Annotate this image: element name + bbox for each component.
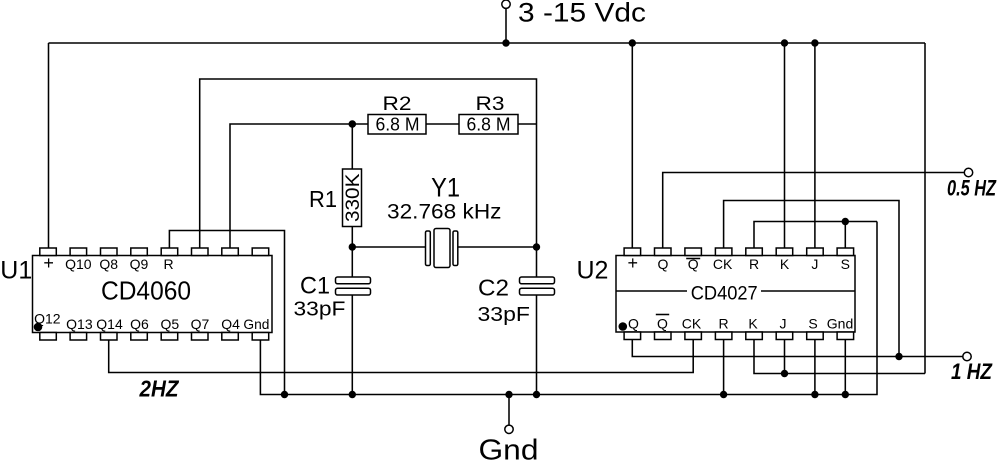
U2 top pin CK xyxy=(715,248,732,256)
terminal: 0.5 HZ open circle xyxy=(964,168,972,176)
wire: R2 to R3 xyxy=(426,123,459,125)
terminal: V+ open circle xyxy=(502,0,510,8)
IC U2 body CD4027 xyxy=(616,256,855,333)
svg-text:R1: R1 xyxy=(309,186,337,212)
wire: R1 top lead xyxy=(351,124,353,169)
wire: U2 bottom Gnd to ground bus xyxy=(844,340,846,395)
capacitor C2 bottom plate xyxy=(520,288,555,295)
wire: U2 bottom K to J to supply riser xyxy=(754,340,925,374)
U1 bottom pin Q7 xyxy=(192,333,209,341)
svg-text:Q: Q xyxy=(658,256,669,272)
svg-text:6.8 M: 6.8 M xyxy=(467,115,511,135)
wire: crystal right lead xyxy=(458,246,537,248)
svg-text:6.8 M: 6.8 M xyxy=(376,115,420,135)
wire: R1 bottom lead to crystal left node xyxy=(351,227,353,248)
svg-text:CK: CK xyxy=(713,256,733,272)
overbar: U2 top Qbar xyxy=(686,258,700,260)
capacitor C2 top plate xyxy=(520,277,555,284)
svg-text:R: R xyxy=(164,256,174,272)
wire: ground bus from U1 Gnd pin across to right riser xyxy=(260,222,877,395)
svg-text:CD4060: CD4060 xyxy=(101,276,191,306)
svg-text:K: K xyxy=(748,316,758,332)
resistor R3 body xyxy=(459,115,518,135)
junction dot: supply terminal on rail xyxy=(502,39,509,46)
svg-text:3 -15 Vdc: 3 -15 Vdc xyxy=(518,0,646,28)
wire: C2 top lead xyxy=(536,247,538,277)
svg-text:+: + xyxy=(627,253,638,273)
junction dot: node R1 top / R2 left xyxy=(349,120,357,128)
wire: C1 top lead xyxy=(351,247,353,277)
U2 top pin + xyxy=(624,248,641,256)
wire: U2 top CK feedback line to 1HZ node xyxy=(724,201,899,357)
junction dot: Gnd terminal on bus xyxy=(505,391,512,398)
svg-text:K: K xyxy=(780,256,790,272)
wire: V+ supply rail top bus xyxy=(49,42,926,44)
svg-text:Gnd: Gnd xyxy=(827,316,854,332)
junction dot: reset drop on ground bus xyxy=(281,391,288,398)
crystal Y1 body xyxy=(434,229,450,268)
svg-text:Gnd: Gnd xyxy=(479,435,539,460)
svg-text:2HZ: 2HZ xyxy=(139,376,180,402)
wire: supply rail down to U1 pin + xyxy=(48,43,50,248)
wire: crystal left lead xyxy=(352,246,425,248)
junction dot: crystal right node xyxy=(533,243,540,250)
svg-text:Q8: Q8 xyxy=(99,256,118,272)
resistor R1 body xyxy=(343,169,362,227)
U2 top pin S xyxy=(837,248,854,256)
U1 top pin 16 (+) xyxy=(40,248,57,256)
svg-text:Q13: Q13 xyxy=(66,316,93,332)
svg-text:33pF: 33pF xyxy=(294,299,346,321)
svg-text:0.5 HZ: 0.5 HZ xyxy=(947,176,997,201)
U2 bottom pin CK xyxy=(685,332,702,340)
junction dot: feedback on 1 HZ line xyxy=(895,353,902,360)
junction dot: C2 on ground bus xyxy=(533,391,540,398)
U1 top pin Q9 xyxy=(131,248,148,256)
wire: supply rail right side down to bottom J/K line xyxy=(924,43,926,374)
junction dot: U2 + branch xyxy=(629,39,636,46)
terminal: 1 HZ open circle xyxy=(963,352,971,360)
wire: 2HZ net from U1 Q14 to U2 bottom CK xyxy=(109,340,694,373)
wire: Gnd terminal stub xyxy=(508,395,510,426)
svg-text:32.768 kHz: 32.768 kHz xyxy=(387,201,502,224)
U2 bottom pin S xyxy=(807,332,824,340)
svg-text:Q10: Q10 xyxy=(65,256,92,272)
U1 bottom pin Q13 xyxy=(70,333,87,341)
svg-text:Y1: Y1 xyxy=(431,172,460,202)
U2 top pin J xyxy=(807,248,824,256)
U1 top pin nc xyxy=(252,248,269,256)
wire: supply rail down to U2 pin + xyxy=(631,43,633,248)
svg-text:Q7: Q7 xyxy=(191,316,210,332)
wire: U1 R pin reset line over to ground drop xyxy=(169,231,284,395)
crystal Y1 right plate xyxy=(453,231,458,266)
junction dot: crystal left node xyxy=(349,243,356,250)
svg-text:CK: CK xyxy=(682,316,702,332)
wire: U2 top S drop xyxy=(844,222,846,249)
svg-text:C1: C1 xyxy=(300,272,330,299)
wire: C2 bottom lead to ground bus xyxy=(536,295,538,395)
wire: supply rail down to U2 top pin J xyxy=(814,43,816,248)
svg-text:R: R xyxy=(749,256,759,272)
U2 bottom pin J xyxy=(776,332,793,340)
U1 bottom pin Q12 xyxy=(40,333,57,341)
svg-text:R3: R3 xyxy=(476,93,505,115)
svg-text:Q9: Q9 xyxy=(130,256,149,272)
resistor R2 body xyxy=(368,115,426,135)
U1 bottom pin Q5 xyxy=(161,333,178,341)
svg-text:R2: R2 xyxy=(383,93,412,115)
svg-text:U2: U2 xyxy=(577,257,609,285)
U1 bottom pin Q6 xyxy=(131,333,148,341)
svg-text:1 HZ: 1 HZ xyxy=(951,359,993,384)
U2 bottom pin Q xyxy=(624,332,641,340)
U2 top pin K xyxy=(776,248,793,256)
svg-text:Gnd: Gnd xyxy=(243,316,269,332)
wire: U2 bottom R to ground bus xyxy=(723,340,725,395)
svg-text:J: J xyxy=(780,316,787,332)
U1 top pin Q10 xyxy=(70,248,87,256)
svg-text:S: S xyxy=(808,316,817,332)
U2 bottom pin K xyxy=(746,332,763,340)
wire: U1 osc pin up and across to crystal right node xyxy=(200,79,537,248)
junction dot: J on K line xyxy=(781,370,788,377)
junction dot: C1 on ground bus xyxy=(349,391,356,398)
svg-text:Q: Q xyxy=(628,316,639,332)
svg-text:+: + xyxy=(43,253,54,273)
U2 top pin R xyxy=(746,248,763,256)
svg-text:U1: U1 xyxy=(0,256,32,284)
U2 top pin Q xyxy=(655,248,672,256)
U2 divider line right xyxy=(761,290,855,292)
wire: supply rail down to U2 top pin K xyxy=(784,43,786,248)
wire: supply terminal stub xyxy=(505,8,507,43)
IC U1 body CD4060 xyxy=(33,256,273,333)
svg-text:CD4027: CD4027 xyxy=(691,283,758,305)
wire: U2 bottom J drop xyxy=(784,340,786,374)
crystal Y1 left plate xyxy=(426,231,431,266)
U1 bottom pin Q4 xyxy=(222,333,239,341)
U2 top pin Qbar xyxy=(685,248,702,256)
svg-text:Q4: Q4 xyxy=(221,316,240,332)
U2 bottom pin Gnd xyxy=(837,332,854,340)
svg-text:Q6: Q6 xyxy=(130,316,149,332)
U1 top pin R xyxy=(161,248,178,256)
junction dot: K branch xyxy=(781,39,788,46)
junction dot: R bottom on ground bus xyxy=(720,391,727,398)
svg-text:S: S xyxy=(841,256,850,272)
wire: U1 osc pin up to R1/R2 node xyxy=(230,124,368,248)
wire: U2 bottom S to ground bus xyxy=(814,340,816,395)
U2 bottom pin Qbar xyxy=(655,332,672,340)
marker dot: U1 pin1 corner xyxy=(34,323,43,332)
svg-text:33pF: 33pF xyxy=(478,304,531,326)
junction dot: S on R/S tie line xyxy=(842,218,849,225)
marker dot: U2 pin9 corner xyxy=(619,322,628,331)
overbar: U2 bottom Qbar xyxy=(656,314,669,316)
U2 bottom pin R xyxy=(715,332,732,340)
U1 top pin Q8 xyxy=(101,248,118,256)
svg-text:J: J xyxy=(811,256,818,272)
junction dot: S bottom on ground bus xyxy=(811,391,818,398)
U2 divider line left xyxy=(616,290,687,292)
junction dot: U2 Gnd on ground bus xyxy=(842,391,849,398)
svg-text:Q5: Q5 xyxy=(160,316,179,332)
wire: 1 HZ net from U2 bottom Q xyxy=(632,340,963,357)
U1 top pin osc2 xyxy=(222,248,239,256)
terminal: Gnd open circle xyxy=(505,425,513,433)
U1 top pin osc1 xyxy=(192,248,209,256)
svg-text:R: R xyxy=(719,316,729,332)
svg-text:Q: Q xyxy=(657,316,668,332)
capacitor C1 top plate xyxy=(336,277,371,284)
junction dot: J branch xyxy=(811,39,818,46)
wire: C1 bottom lead to ground bus xyxy=(351,295,353,395)
svg-text:330K: 330K xyxy=(343,173,364,222)
svg-text:Q14: Q14 xyxy=(96,316,123,332)
U1 bottom pin Gnd xyxy=(252,333,269,341)
capacitor C1 bottom plate xyxy=(336,288,371,295)
wire: R3 right to vertical feedback line xyxy=(518,123,537,125)
wire: 0.5 HZ net from U2 top Q xyxy=(663,173,965,249)
U1 bottom pin Q14 xyxy=(101,333,118,341)
wire: U2 top R / S tie line to ground riser xyxy=(754,222,877,249)
svg-text:C2: C2 xyxy=(478,275,509,301)
